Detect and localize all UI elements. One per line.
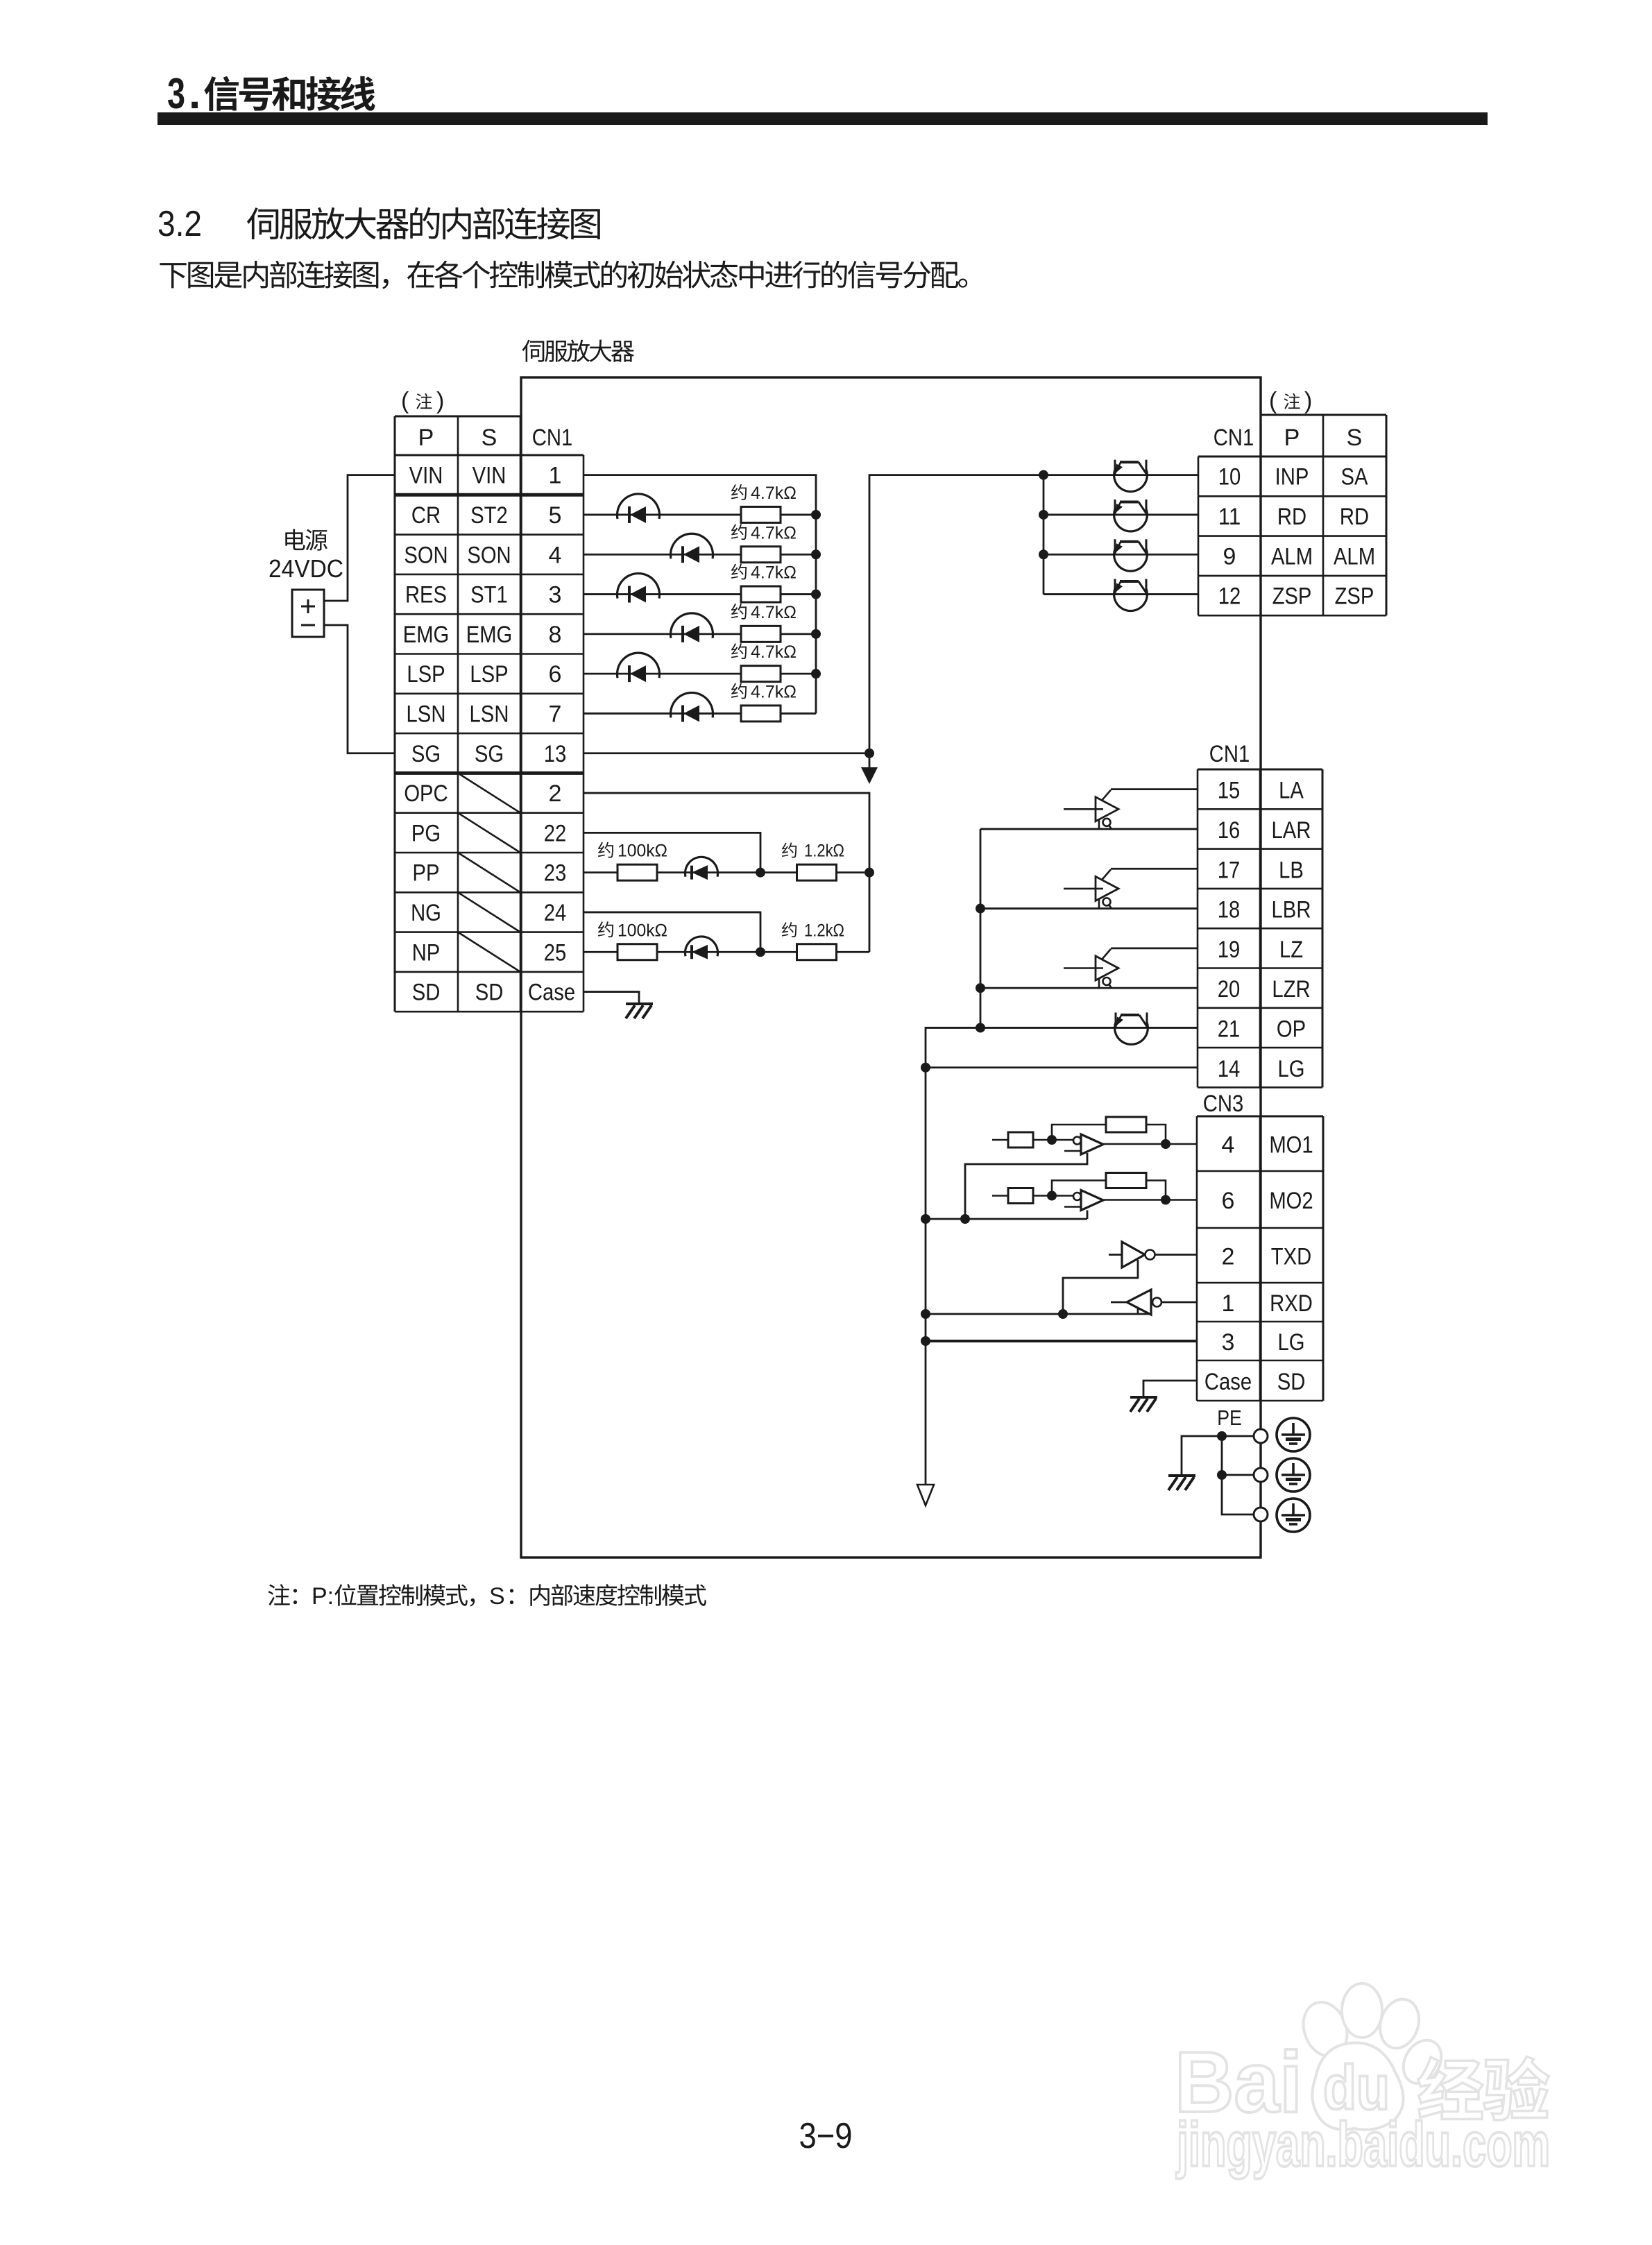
svg-text:7: 7: [549, 701, 562, 727]
open arrow terminator: [917, 1485, 934, 1505]
resistor 4.7k row 7: [741, 706, 781, 722]
junction: [921, 1214, 930, 1224]
wire LZ: [1111, 947, 1198, 949]
svg-text:ALM: ALM: [1271, 543, 1313, 570]
optocoupler LED row 25: [686, 937, 718, 959]
junction: [1217, 1431, 1227, 1441]
svg-text:3.2: 3.2: [157, 204, 202, 244]
wire PE terminal 2: [1222, 1474, 1254, 1476]
wire VIN to battery +: [324, 475, 395, 601]
svg-text:6: 6: [549, 661, 562, 688]
svg-text:S: S: [1347, 425, 1363, 451]
svg-text:SD: SD: [1277, 1369, 1306, 1395]
inverter TXD: [1109, 1242, 1197, 1267]
svg-text:3: 3: [167, 70, 185, 118]
wire pin 25: [584, 951, 618, 953]
rail SG to output common: [869, 475, 1044, 753]
svg-text:12: 12: [1218, 583, 1241, 610]
svg-text:P: P: [1284, 425, 1300, 451]
svg-text:RES: RES: [405, 582, 447, 608]
svg-text:LSN: LSN: [470, 701, 509, 727]
wire MO1 reference: [965, 1153, 1087, 1219]
svg-text:PE: PE: [1217, 1406, 1242, 1430]
wire Case shield: [584, 992, 639, 1004]
svg-text:14: 14: [1218, 1056, 1241, 1082]
optocoupler LED row 6: [618, 653, 660, 682]
protective earth symbol 1: [1277, 1418, 1310, 1451]
line driver LB/LBR: [1064, 869, 1118, 908]
label 4.7k row 3: [731, 563, 797, 583]
svg-text:20: 20: [1218, 976, 1241, 1002]
junction: [976, 983, 985, 993]
svg-text:INP: INP: [1275, 464, 1309, 490]
wire CN3 case shield: [1143, 1381, 1197, 1397]
op-amp MO1: [992, 1117, 1197, 1154]
label 伺服放大器: [522, 340, 634, 362]
chassis ground Case: [626, 1004, 653, 1018]
wire LG pin3: [926, 1340, 1197, 1342]
svg-text:Case: Case: [528, 980, 575, 1006]
footnote: [268, 1583, 706, 1610]
svg-text:LZ: LZ: [1279, 937, 1303, 963]
svg-text:ALM: ALM: [1334, 543, 1375, 570]
svg-text:S: S: [482, 425, 497, 451]
svg-text:P:: P:: [312, 1583, 334, 1610]
terminal PE1: [1254, 1429, 1268, 1443]
wire LZR: [980, 987, 1198, 989]
svg-text:3−9: 3−9: [799, 2116, 853, 2156]
resistor 1.2k row 25: [797, 944, 837, 960]
svg-text:): ): [436, 388, 444, 414]
svg-text:4.7kΩ: 4.7kΩ: [751, 603, 797, 622]
label PE: [1217, 1406, 1242, 1430]
label 4.7k row 8: [731, 603, 797, 622]
svg-text:VIN: VIN: [409, 463, 443, 489]
svg-text:1.2kΩ: 1.2kΩ: [804, 842, 844, 861]
svg-text:LZR: LZR: [1272, 976, 1310, 1002]
junction: [976, 904, 985, 914]
svg-text:4.7kΩ: 4.7kΩ: [751, 642, 797, 662]
wire battery - to SG: [324, 625, 395, 753]
wire analog ground: [926, 1218, 1087, 1220]
svg-text:.: .: [189, 70, 201, 118]
svg-text:6: 6: [1222, 1188, 1235, 1214]
label 100k: [598, 921, 667, 940]
svg-text:ST1: ST1: [470, 582, 508, 608]
svg-text:22: 22: [544, 820, 567, 846]
svg-text:EMG: EMG: [466, 622, 513, 648]
svg-text:4: 4: [1222, 1132, 1235, 1159]
svg-text:3: 3: [1222, 1329, 1235, 1356]
page number: [799, 2116, 853, 2156]
line driver LZ/LZR: [1064, 949, 1118, 988]
resistor 4.7k row 3: [741, 586, 781, 602]
wire TXD reference: [1063, 1260, 1138, 1314]
svg-text:SD: SD: [412, 980, 441, 1006]
label 4.7k row 7: [731, 682, 797, 701]
svg-text:1: 1: [549, 463, 562, 489]
note marker (注) left: [401, 388, 444, 414]
wire OPC pin2: [584, 793, 869, 952]
phototransistor pin 11: [1114, 500, 1148, 531]
terminal PE3: [1254, 1508, 1268, 1521]
svg-text:CN1: CN1: [1209, 741, 1250, 767]
svg-text:18: 18: [1218, 897, 1241, 923]
svg-text:25: 25: [544, 939, 567, 966]
svg-text:CN1: CN1: [1214, 425, 1254, 451]
chassis ground CN3: [1130, 1397, 1157, 1412]
svg-text:24VDC: 24VDC: [269, 554, 343, 583]
svg-text:CN1: CN1: [532, 425, 572, 451]
wire output pin 10: [1044, 474, 1198, 476]
CN3 table: [1197, 1116, 1323, 1401]
junction: [921, 1309, 930, 1319]
optocoupler LED row 5: [618, 494, 660, 523]
wire OP pin21: [926, 1027, 1198, 1485]
svg-text:17: 17: [1218, 857, 1241, 883]
svg-text:LB: LB: [1279, 857, 1304, 883]
svg-text:(: (: [1269, 388, 1277, 414]
input row pin 5 wire: [584, 514, 741, 516]
junction: [811, 549, 821, 559]
watermark baidu jingyan: [1175, 1983, 1550, 2180]
servo amplifier box: [521, 377, 1261, 1557]
input row pin 4 wire: [584, 554, 741, 556]
junction: [811, 629, 821, 639]
optocoupler LED row 4: [671, 533, 713, 563]
svg-text:CN3: CN3: [1203, 1091, 1243, 1117]
phototransistor pin 12: [1114, 579, 1148, 611]
svg-text:LG: LG: [1277, 1329, 1304, 1356]
junction SG: [865, 749, 874, 758]
input row pin 3 wire: [584, 593, 741, 595]
label 100k: [598, 842, 667, 861]
svg-text:PP: PP: [412, 860, 439, 887]
junction OP rail: [976, 1023, 985, 1032]
label CN1 middle: [1209, 741, 1250, 767]
resistor 4.7k row 4: [741, 547, 781, 563]
svg-text:24: 24: [544, 900, 567, 926]
optocoupler LED row 3: [618, 574, 660, 603]
svg-text:EMG: EMG: [403, 622, 450, 648]
right CN1 output table: [1198, 415, 1386, 615]
svg-text:4.7kΩ: 4.7kΩ: [751, 523, 797, 543]
svg-text:SG: SG: [475, 741, 504, 767]
junction: [811, 510, 821, 520]
junction: [1217, 1470, 1227, 1480]
junction: [811, 669, 821, 678]
svg-text:5: 5: [549, 502, 562, 529]
svg-text:LAR: LAR: [1272, 817, 1311, 844]
svg-text:TXD: TXD: [1271, 1244, 1311, 1270]
svg-text:RD: RD: [1277, 504, 1306, 530]
junction pull-down: [756, 868, 765, 878]
svg-text:9: 9: [1223, 543, 1236, 570]
svg-text:SD: SD: [475, 980, 504, 1006]
wire serial ground: [926, 1313, 1151, 1315]
svg-text:8: 8: [549, 622, 562, 648]
CN1 encoder output table: [1198, 769, 1322, 1087]
resistor 1.2k row 23: [797, 864, 837, 880]
optocoupler LED row 23: [686, 857, 718, 880]
svg-text:SON: SON: [404, 542, 448, 568]
phototransistor pin 9: [1114, 539, 1148, 571]
chapter header 3.信号和接线: [157, 70, 1488, 125]
junction pull-down: [756, 947, 765, 957]
wire LAR: [980, 828, 1198, 830]
wire PE terminal 1: [1182, 1436, 1254, 1476]
svg-text:19: 19: [1218, 937, 1241, 963]
junction LG: [921, 1063, 930, 1073]
input row pin 7 wire: [584, 712, 741, 715]
junction: [960, 1214, 970, 1224]
svg-text:SA: SA: [1340, 464, 1368, 490]
svg-text:3: 3: [549, 582, 562, 608]
wire LB: [1111, 868, 1198, 870]
svg-text:LSN: LSN: [407, 701, 446, 727]
svg-text:1.2kΩ: 1.2kΩ: [804, 921, 844, 940]
input row pin 8 wire: [584, 633, 741, 635]
svg-text:NG: NG: [411, 900, 441, 926]
svg-text:PG: PG: [411, 820, 441, 846]
wire output pin 9: [1044, 554, 1198, 556]
svg-text:15: 15: [1218, 778, 1241, 804]
junction OPC rail / PP: [865, 868, 874, 878]
svg-text:ZSP: ZSP: [1335, 583, 1374, 610]
label CN3: [1203, 1091, 1243, 1117]
wire output pin 11: [1044, 514, 1198, 516]
svg-text:(: (: [401, 388, 409, 414]
svg-text:Case: Case: [1204, 1369, 1252, 1395]
arrow down terminator: [861, 753, 878, 784]
svg-text:RD: RD: [1340, 504, 1369, 530]
protective earth symbol 2: [1277, 1458, 1310, 1492]
wire LA: [1111, 788, 1198, 790]
rail encoder return: [980, 829, 982, 1028]
wire pin1 VIN to 4.7k bus: [584, 475, 816, 714]
resistor 100k row 23: [618, 864, 657, 880]
svg-text:OPC: OPC: [404, 780, 448, 807]
junction: [921, 1336, 930, 1346]
section title 3.2: [157, 204, 600, 244]
svg-text:4.7kΩ: 4.7kΩ: [751, 682, 797, 701]
svg-text:): ): [1304, 388, 1312, 414]
svg-text:23: 23: [544, 860, 567, 887]
svg-text:16: 16: [1218, 817, 1241, 844]
body text: [160, 261, 967, 289]
svg-text:S: S: [489, 1583, 505, 1610]
svg-text:LA: LA: [1279, 778, 1304, 804]
wire output pin 12: [1044, 593, 1198, 595]
power supply 电源 24VDC: [269, 529, 343, 638]
svg-text:NP: NP: [412, 939, 441, 966]
note marker (注) right: [1269, 388, 1312, 414]
label 4.7k row 6: [731, 642, 797, 662]
svg-text:2: 2: [1222, 1244, 1235, 1270]
input row pin 6 wire: [584, 673, 741, 675]
svg-text:4.7kΩ: 4.7kΩ: [751, 563, 797, 583]
rail output common: [1043, 475, 1045, 595]
wire LG pin14: [926, 1066, 1198, 1068]
resistor 100k row 25: [618, 944, 657, 960]
svg-text:1: 1: [1222, 1290, 1235, 1317]
junction: [1039, 510, 1048, 520]
wire pin 22: [584, 833, 760, 872]
wire SG pin13: [584, 752, 869, 754]
svg-text:LBR: LBR: [1272, 897, 1311, 923]
svg-text:10: 10: [1218, 464, 1241, 490]
svg-text:100kΩ: 100kΩ: [618, 921, 667, 940]
label 4.7k row 5: [731, 484, 797, 503]
terminal PE2: [1254, 1468, 1268, 1482]
wire MO2 reference: [1087, 1211, 1089, 1220]
label CN1 right top: [1214, 425, 1254, 451]
svg-text:CR: CR: [411, 502, 441, 529]
svg-text:RXD: RXD: [1270, 1290, 1313, 1317]
svg-text:VIN: VIN: [472, 463, 506, 489]
svg-text:LSP: LSP: [407, 661, 445, 688]
svg-text:4.7kΩ: 4.7kΩ: [751, 484, 797, 503]
svg-text:ZSP: ZSP: [1272, 583, 1312, 610]
svg-text:ST2: ST2: [470, 502, 508, 529]
label 1.2k: [782, 921, 844, 940]
svg-text:SG: SG: [411, 741, 441, 767]
svg-text:OP: OP: [1277, 1016, 1306, 1042]
chassis ground PE: [1168, 1476, 1195, 1490]
wire pin 24: [584, 912, 760, 952]
svg-text:LSP: LSP: [470, 661, 508, 688]
svg-text:100kΩ: 100kΩ: [618, 842, 667, 861]
junction: [1039, 549, 1048, 559]
wire pin 23: [584, 871, 618, 873]
svg-text:21: 21: [1218, 1016, 1241, 1042]
resistor 4.7k row 5: [741, 506, 781, 522]
optocoupler LED row 8: [671, 613, 713, 642]
svg-text:2: 2: [549, 780, 562, 807]
resistor 4.7k row 6: [741, 666, 781, 682]
svg-text:11: 11: [1218, 504, 1241, 530]
left CN1 input table: [395, 416, 584, 1011]
inverter RXD: [1111, 1290, 1197, 1315]
optocoupler LED row 7: [671, 692, 713, 722]
op-amp MO2: [992, 1173, 1197, 1211]
svg-text:jingyan.baidu.com: jingyan.baidu.com: [1176, 2110, 1550, 2180]
protective earth symbol 3: [1277, 1499, 1310, 1532]
svg-text:4: 4: [549, 542, 562, 568]
junction: [1058, 1309, 1068, 1319]
label 4.7k row 4: [731, 523, 797, 543]
svg-text:MO1: MO1: [1269, 1132, 1313, 1159]
svg-text:LG: LG: [1277, 1056, 1304, 1082]
label 1.2k: [782, 842, 844, 861]
wire LBR: [980, 907, 1198, 910]
svg-text:MO2: MO2: [1269, 1188, 1313, 1214]
wire PE bus: [1222, 1436, 1254, 1514]
line driver LA/LAR: [1064, 790, 1118, 829]
resistor 4.7k row 8: [741, 626, 781, 642]
svg-text:13: 13: [544, 741, 567, 767]
phototransistor OP: [1115, 1012, 1148, 1044]
svg-text:SON: SON: [467, 542, 511, 568]
junction: [811, 590, 821, 599]
svg-text:P: P: [418, 425, 434, 451]
phototransistor pin 10: [1114, 460, 1148, 492]
